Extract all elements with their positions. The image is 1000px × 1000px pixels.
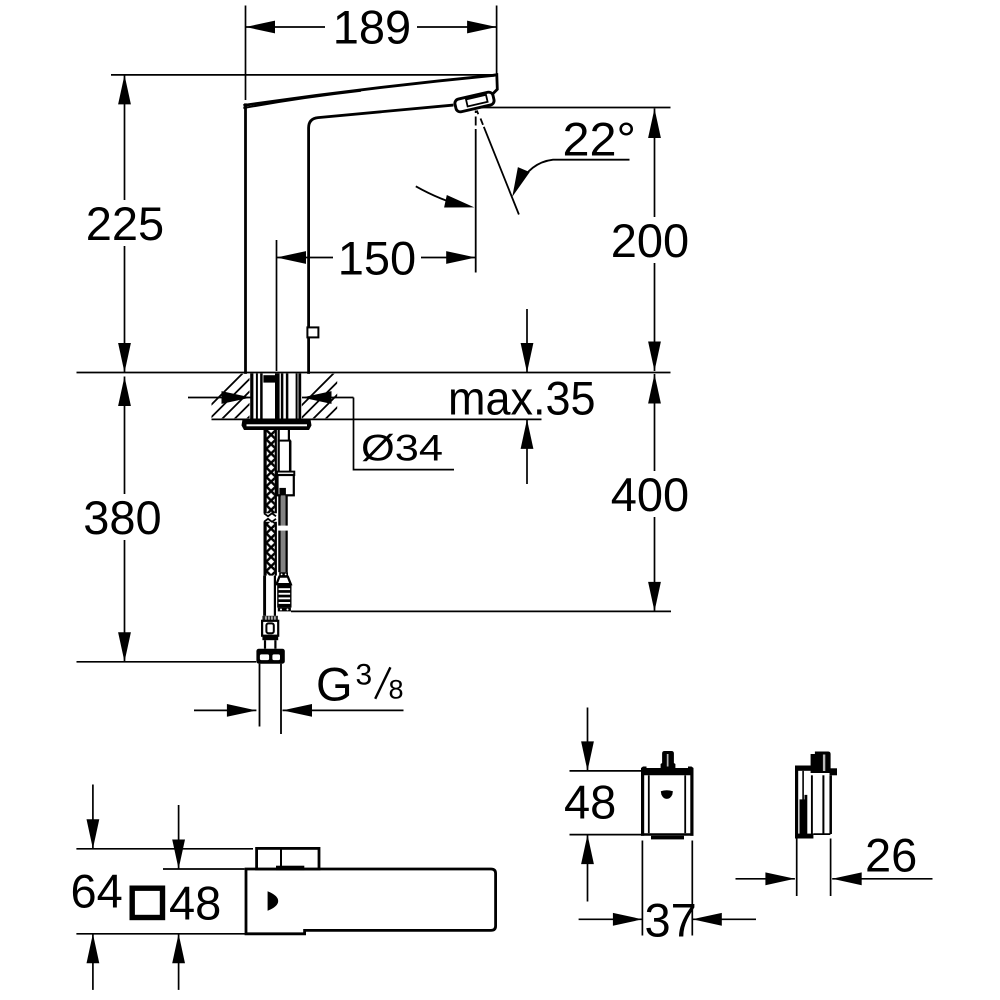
water stream vertical line: [475, 111, 477, 131]
side view nipple: [811, 752, 831, 774]
dim 37 line: [579, 918, 756, 920]
connector tube: [265, 640, 275, 649]
thin tube segment 2: [281, 531, 286, 573]
dim 380 line: [124, 377, 126, 662]
svg-text:37: 37: [645, 894, 697, 947]
dim 225 line: [124, 75, 126, 373]
detection zone arc arrow: [416, 186, 465, 206]
spout tip right edge: [491, 75, 497, 96]
svg-text:max.35: max.35: [448, 372, 596, 425]
svg-text:380: 380: [83, 491, 161, 544]
side view top band: [795, 766, 819, 771]
svg-text:200: 200: [611, 214, 689, 267]
top view sensor D mark: [268, 891, 279, 911]
dim 26 line: [736, 878, 933, 880]
control box nipple: [661, 751, 676, 768]
dim 189 extension lines: [246, 6, 497, 101]
plug ribbed body: [277, 584, 291, 607]
supply pipe: [260, 664, 282, 734]
dim 64 arrows: [92, 785, 94, 990]
svg-text:150: 150: [338, 231, 416, 284]
dim 150 line: [277, 257, 476, 259]
control box foot: [651, 836, 684, 840]
tube upper section: [278, 430, 291, 471]
svg-text:Ø34: Ø34: [361, 428, 443, 469]
control box front outline: [641, 768, 694, 836]
side view left edge: [795, 766, 798, 839]
svg-text:22°: 22°: [563, 112, 637, 165]
control box top band: [641, 767, 694, 776]
dim max35 arrows: [526, 309, 528, 484]
lower hose tube: [265, 576, 275, 616]
dim 189 line: [246, 26, 497, 28]
plug top cap: [279, 572, 288, 576]
svg-text:26: 26: [865, 829, 917, 882]
dim 150 extension line: [276, 240, 278, 371]
svg-text:189: 189: [333, 0, 411, 53]
dim 48 arrows (top view): [178, 805, 180, 990]
spout height reference line: [480, 107, 671, 109]
svg-text:64: 64: [71, 864, 123, 917]
dim 200 line: [654, 109, 656, 372]
top view sensor dark band: [276, 866, 304, 871]
deck bottom line: [212, 418, 542, 420]
faucet column left edge: [244, 105, 247, 373]
tube connector box: [277, 472, 294, 475]
shank center dark bar: [275, 374, 280, 420]
GROHE logo: [661, 790, 673, 799]
hose end reference line: [77, 661, 257, 663]
side view bottom: [795, 834, 813, 839]
dim 26 extension lines: [797, 839, 831, 897]
faucet top chamfer line: [244, 91, 360, 108]
deck top line: [77, 372, 671, 374]
dim 48 arrows (front view): [587, 708, 589, 902]
dim 400 line: [654, 374, 656, 611]
thin tube segment 1: [281, 495, 286, 525]
22 degree leader line: [519, 160, 630, 186]
dim dia34 arrows: [188, 398, 454, 470]
square symbol: [132, 888, 162, 917]
svg-text:225: 225: [86, 197, 164, 250]
dim 37 extension lines: [642, 841, 692, 936]
cartridge cap in shank: [263, 375, 275, 382]
inline connector knurl band: [262, 616, 278, 621]
svg-text:8: 8: [389, 674, 404, 704]
side view inner lines: [803, 771, 831, 837]
sensor window on column: [307, 327, 318, 337]
225 top reference line: [111, 74, 493, 76]
svg-text:3: 3: [356, 658, 373, 691]
mounting washer below deck: [242, 419, 312, 430]
top view reference lines: [76, 849, 253, 934]
braided hose segment 2: [266, 522, 275, 576]
svg-text:48: 48: [564, 775, 616, 828]
deck hatching left: [196, 373, 343, 420]
side view right flange: [830, 768, 838, 775]
braided hose segment 1: [266, 430, 275, 513]
faucet top edge: [245, 75, 494, 105]
aerator housing: [454, 91, 495, 112]
deck hatching right: [287, 373, 434, 420]
plug base: [278, 608, 291, 612]
svg-text:G: G: [316, 658, 353, 711]
top view aerator block: [257, 848, 319, 869]
svg-text:48: 48: [169, 876, 221, 929]
inline connector lower band: [262, 636, 278, 641]
faucet shank through deck: [252, 374, 300, 420]
dim 48 ref lines (front view): [570, 771, 642, 835]
G3/8 nut: [256, 649, 284, 664]
top view body outline: [246, 869, 496, 934]
side view dark sensor bar: [800, 795, 808, 837]
dim G3/8 arrows: [194, 709, 404, 711]
inline connector body: [262, 621, 278, 636]
22 degree stream line: [477, 111, 479, 115]
400 bottom reference line: [291, 610, 671, 612]
plug tapered shoulder: [277, 577, 291, 585]
spout underside and column inner edge: [309, 105, 452, 372]
svg-text:400: 400: [611, 468, 689, 521]
